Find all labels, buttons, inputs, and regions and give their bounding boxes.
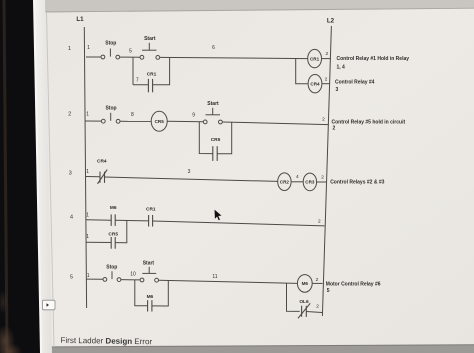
- svg-text:CR1: CR1: [310, 56, 320, 61]
- svg-text:Control Relay #4: Control Relay #4: [335, 80, 375, 86]
- svg-text:3: 3: [336, 87, 339, 93]
- svg-text:CR4: CR4: [97, 159, 107, 165]
- svg-text:1: 1: [87, 45, 90, 51]
- wire 3 (contact CR4 to coil CR2): [105, 177, 278, 181]
- svg-text:Control Relay #1 Hold in Rel: Control Relay #1 Hold in Relay: [337, 56, 410, 62]
- svg-text:2: 2: [322, 117, 325, 123]
- wire (coil CR4 to rail L2): [322, 83, 330, 85]
- svg-text:2: 2: [325, 77, 328, 83]
- wire (branch to contact CR1): [133, 84, 148, 86]
- svg-text:4: 4: [70, 215, 73, 221]
- svg-text:CR5: CR5: [211, 137, 221, 143]
- coil CR4: [308, 75, 322, 93]
- rail L1: [84, 27, 86, 308]
- wire (overload branch down): [287, 283, 300, 311]
- wire (rung 4: L1 rail to contact M6): [86, 219, 111, 222]
- wire (contact M6 to contact CR1): [115, 219, 148, 222]
- svg-text:M6: M6: [147, 294, 154, 300]
- navigation button (left margin, small white square with arrow): [42, 300, 55, 310]
- svg-text:CR5: CR5: [155, 119, 165, 124]
- coil CR3: [303, 173, 316, 191]
- wire (contact OL6 to rail L2): [306, 312, 322, 313]
- svg-text:CR1: CR1: [146, 207, 156, 213]
- wire (rung 1: L1 rail to Stop): [86, 56, 101, 58]
- wire (branch down to coil CR4): [296, 59, 308, 84]
- svg-text:Start: Start: [143, 261, 155, 267]
- svg-text:Control Relay #5 hold in circu: Control Relay #5 hold in circuit: [332, 120, 406, 126]
- svg-text:CR2: CR2: [280, 180, 290, 185]
- rail L2: [322, 26, 331, 316]
- contact CR5 (rung 2 seal-in, NO): [213, 146, 217, 161]
- svg-text:3: 3: [188, 169, 191, 175]
- wire (rung 2: Start to rail L2): [222, 122, 328, 125]
- svg-text:2: 2: [333, 126, 336, 132]
- contact CR1 (rung 4, NO): [149, 215, 153, 227]
- svg-text:CR3: CR3: [305, 180, 315, 185]
- bottom-left brown reflection blotches: [0, 325, 15, 353]
- pushbutton Start (rung 1, NO): [140, 43, 160, 60]
- wire (rung 2: L1 rail to Stop): [86, 120, 102, 122]
- wire (seal-in branch down from node 10): [135, 280, 148, 306]
- svg-text:First Ladder Design Error: First Ladder Design Error: [60, 336, 152, 346]
- svg-text:1: 1: [87, 273, 90, 279]
- svg-text:L1: L1: [76, 16, 84, 23]
- pushbutton Start (rung 5, NO): [140, 267, 158, 282]
- wire 10 (Stop to node 10): [121, 279, 140, 281]
- svg-text:2: 2: [316, 277, 319, 283]
- pushbutton Stop (rung 2, NC): [101, 113, 120, 123]
- wire (branch back up to rung 4): [115, 221, 127, 243]
- svg-text:5: 5: [129, 49, 132, 55]
- pushbutton Stop (rung 1, NC): [101, 49, 120, 59]
- svg-text:2: 2: [325, 51, 328, 57]
- svg-text:2: 2: [318, 219, 321, 225]
- wire 6 (rung 1: Start to coil CR1): [160, 57, 308, 58]
- pushbutton Start (rung 2, NO): [203, 108, 222, 124]
- black monitor bezel: [0, 0, 40, 353]
- svg-text:2: 2: [68, 112, 71, 118]
- svg-text:OL6: OL6: [299, 299, 309, 305]
- svg-text:1: 1: [86, 169, 89, 175]
- svg-text:9: 9: [192, 113, 195, 119]
- svg-text:CR1: CR1: [147, 72, 157, 78]
- svg-text:5: 5: [327, 288, 330, 294]
- contact M6 (rung 4, NO): [111, 214, 115, 226]
- wire (rung 4: contact CR1 to rail L2): [153, 221, 325, 226]
- svg-text:CR4: CR4: [310, 82, 320, 87]
- wire (seal-in branch down, left side): [199, 122, 213, 154]
- gray strip below page bottom edge: [34, 345, 474, 353]
- svg-text:1: 1: [68, 46, 71, 52]
- wire (holding branch down from node 5): [132, 57, 134, 84]
- wire (coil CR1 to rail L2): [322, 58, 331, 60]
- wire 9 (coil CR5 to Start): [167, 120, 203, 123]
- page top edge line: [40, 8, 474, 12]
- wire (coil M6 to rail L2): [312, 282, 322, 284]
- svg-text:2: 2: [321, 175, 324, 181]
- svg-text:1: 1: [86, 213, 89, 219]
- contact OL6 (overload, NC): [298, 303, 310, 318]
- svg-text:1: 1: [86, 234, 89, 240]
- wire (contact CR1 back up to rung 1): [153, 58, 170, 85]
- svg-text:Stop: Stop: [106, 265, 117, 271]
- coil M6: [297, 275, 312, 293]
- coil CR2: [278, 173, 291, 191]
- svg-text:Stop: Stop: [105, 41, 116, 47]
- wire (rung 1: Stop to node 5): [120, 56, 140, 58]
- coil CR1: [308, 49, 322, 67]
- svg-text:7: 7: [136, 78, 139, 84]
- svg-text:10: 10: [130, 272, 136, 278]
- bezel highlight band: [32, 0, 52, 353]
- svg-text:1, 4: 1, 4: [337, 65, 346, 71]
- wire (seal-in branch back up to rung 5): [152, 280, 168, 306]
- svg-text:8: 8: [131, 112, 134, 118]
- wire (rung 3: L1 rail to contact CR4): [86, 176, 100, 178]
- svg-text:2: 2: [316, 304, 319, 310]
- gray application strip above page: [36, 0, 474, 13]
- svg-text:Motor Control Relay #6: Motor Control Relay #6: [326, 282, 381, 288]
- contact CR1 (rung 1 holding, NO): [148, 79, 152, 92]
- coil CR5 (misplaced mid-rung): [151, 111, 167, 131]
- wire 8 (Stop to coil CR5): [120, 120, 151, 122]
- bezel brown reflection stripe: [4, 0, 7, 353]
- svg-text:M6: M6: [110, 205, 117, 211]
- wire (rung 4 branch: L1 rail to contact CR5): [86, 241, 111, 243]
- svg-text:6: 6: [212, 45, 215, 51]
- caption: First Ladder Design Error: [60, 336, 152, 346]
- pushbutton Stop (rung 5, NC): [103, 271, 121, 281]
- wire (seal-in branch back up to rung 2): [217, 122, 232, 154]
- svg-text:Stop: Stop: [105, 106, 116, 112]
- contact CR4 (rung 3, NC): [98, 170, 108, 184]
- wire (rung 5: L1 rail to Stop): [86, 278, 103, 280]
- svg-text:CR5: CR5: [108, 232, 118, 238]
- wire 11 (Start to coil M6): [159, 280, 298, 283]
- mouse cursor: [214, 209, 222, 220]
- svg-text:Start: Start: [144, 36, 156, 42]
- svg-text:Start: Start: [207, 101, 219, 107]
- svg-text:Control Relays #2 & #3: Control Relays #2 & #3: [330, 180, 384, 186]
- svg-text:M6: M6: [302, 281, 309, 286]
- svg-text:L2: L2: [327, 18, 335, 25]
- svg-text:4: 4: [296, 174, 299, 180]
- svg-text:5: 5: [70, 275, 73, 281]
- svg-text:11: 11: [212, 274, 217, 280]
- contact CR5 (rung 4 branch, NO): [111, 237, 115, 249]
- contact M6 (rung 5 seal-in, NO): [148, 300, 152, 311]
- wire 4 (coil CR2 to coil CR3): [291, 181, 303, 183]
- svg-text:3: 3: [69, 171, 72, 177]
- faint page left edge line: [47, 12, 55, 347]
- wire (coil CR3 to rail L2): [317, 181, 327, 183]
- svg-text:1: 1: [86, 112, 89, 118]
